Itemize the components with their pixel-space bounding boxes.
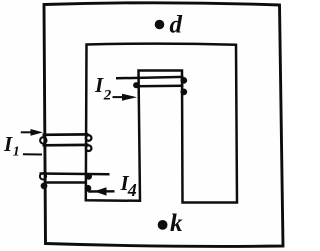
coil I1 right loop b	[86, 145, 92, 151]
coil I4 left dot	[41, 183, 48, 190]
window outline with middle limb	[86, 44, 237, 203]
coil I1 left loop	[40, 137, 46, 143]
coil I4 turn 2	[45, 181, 87, 184]
coil I1 exit lead	[23, 153, 42, 155]
svg-text:k: k	[170, 210, 183, 237]
coil I4 right dot b	[85, 185, 92, 192]
arrow I1	[21, 131, 32, 133]
coil I4 right dot	[86, 173, 92, 179]
coil I1 turn 1	[43, 133, 89, 136]
coil I2 turn 2	[136, 85, 184, 88]
svg-text:1: 1	[13, 145, 20, 160]
svg-text:2: 2	[103, 88, 112, 104]
coil I2 right loop a	[180, 77, 187, 84]
arrow I4	[88, 190, 114, 193]
svg-text:d: d	[170, 12, 183, 39]
coil I2 turn 1 with left lead	[116, 77, 184, 78]
coil I2 right loop b	[180, 89, 187, 96]
svg-text:I: I	[3, 132, 13, 156]
coil I4 left loop	[40, 173, 46, 179]
outer core boundary	[44, 3, 283, 247]
node k dot	[158, 220, 168, 230]
arrow I2	[113, 96, 125, 98]
svg-text:4: 4	[127, 180, 137, 200]
node d dot	[155, 20, 165, 30]
coil I1 turn 2	[43, 144, 89, 147]
svg-text:I: I	[94, 73, 104, 97]
coil I4 turn 1 with right lead	[40, 172, 110, 175]
coil I1 right loop a	[86, 135, 92, 141]
coil I2 left loop	[133, 82, 139, 88]
